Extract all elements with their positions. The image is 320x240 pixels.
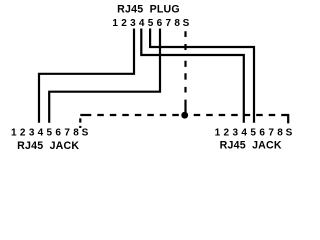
svg-text:RJ45 JACK: RJ45 JACK	[17, 140, 79, 152]
svg-text:S: S	[82, 127, 89, 138]
svg-text:6: 6	[157, 18, 163, 29]
svg-text:1: 1	[112, 18, 118, 29]
svg-text:6: 6	[55, 127, 61, 138]
svg-text:RJ45 PLUG: RJ45 PLUG	[117, 4, 180, 16]
svg-text:5: 5	[148, 18, 154, 29]
svg-text:7: 7	[166, 18, 172, 29]
svg-text:7: 7	[64, 127, 70, 138]
svg-text:2: 2	[20, 127, 26, 138]
svg-text:5: 5	[47, 127, 53, 138]
svg-text:2: 2	[224, 127, 230, 138]
right jack pin numbers 1-8,S	[215, 127, 293, 138]
svg-text:6: 6	[259, 127, 265, 138]
svg-text:5: 5	[250, 127, 256, 138]
left jack pin numbers 1-8,S	[11, 127, 89, 138]
svg-text:RJ45 JACK: RJ45 JACK	[220, 140, 282, 152]
svg-text:1: 1	[11, 127, 17, 138]
wire plug pin 4 to right jack pin 4	[141, 29, 244, 123]
svg-text:4: 4	[139, 18, 145, 29]
wire plug pin 3 to left jack pin 4	[39, 29, 134, 123]
svg-text:S: S	[286, 127, 293, 138]
junction dot on shield net	[181, 112, 188, 119]
svg-text:S: S	[183, 18, 190, 29]
svg-text:4: 4	[241, 127, 247, 138]
svg-text:8: 8	[277, 127, 283, 138]
svg-text:4: 4	[38, 127, 44, 138]
svg-text:2: 2	[121, 18, 127, 29]
svg-text:3: 3	[130, 18, 136, 29]
shield wire: dashed horizontal left branch to left jack S	[80, 115, 179, 128]
wire plug pin 6 to left jack pin 5	[49, 29, 160, 123]
svg-text:1: 1	[215, 127, 221, 138]
svg-text:3: 3	[233, 127, 239, 138]
svg-text:7: 7	[268, 127, 274, 138]
wire plug pin 5 to right jack pin 5	[150, 29, 254, 123]
shield wire: dashed horizontal right branch to right jack S	[194, 115, 290, 123]
shield wire: dashed vertical from plug S	[184, 31, 186, 112]
svg-text:8: 8	[174, 18, 180, 29]
plug pin numbers 1-8,S	[112, 18, 189, 29]
svg-text:8: 8	[73, 127, 79, 138]
svg-text:3: 3	[29, 127, 35, 138]
